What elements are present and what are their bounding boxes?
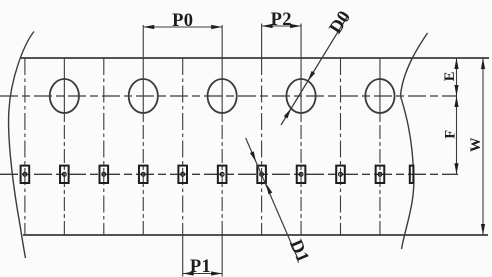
dimension P2 arrow right <box>290 24 301 28</box>
dimension W arrow bottom <box>481 224 485 235</box>
dimension D0 arrow upper <box>308 71 315 81</box>
dimension P0 extension line left <box>142 25 144 58</box>
dimension P0 line <box>143 26 222 28</box>
svg-text:W: W <box>468 137 484 152</box>
dimension P0 arrow right <box>211 25 222 29</box>
dimension W arrow top <box>481 58 485 69</box>
pocket 5 <box>178 166 187 183</box>
pocket 6 <box>218 166 227 183</box>
vertical center line x3 (hole 2 / pocket 4) <box>142 58 144 122</box>
pocket 1 <box>21 166 30 183</box>
sprocket hole 3 <box>208 79 237 113</box>
dimension W line <box>482 58 484 235</box>
dimension P1 extension line right <box>221 235 223 277</box>
svg-text:F: F <box>443 130 459 139</box>
dimension P2 line <box>262 25 301 27</box>
dimension D0 leader line <box>281 17 347 125</box>
pocket horizontal center line <box>0 173 458 175</box>
dimension P0 arrow left <box>143 25 154 29</box>
vertical center line x2 (pocket 3) <box>103 58 105 235</box>
dimension P2 arrow left <box>262 24 273 28</box>
dimension F arrow top <box>454 96 458 107</box>
svg-text:D0: D0 <box>326 7 355 37</box>
dimension D0 arrow lower <box>284 108 291 118</box>
sprocket-hole horizontal center line <box>0 95 457 97</box>
pocket 8 <box>297 166 306 183</box>
vertical center line x7 (hole 4 / pocket 8) <box>300 58 302 122</box>
svg-text:P0: P0 <box>172 11 193 31</box>
dimension F arrow bottom <box>454 163 458 174</box>
pocket 4 <box>139 166 148 183</box>
dimension P1 extension line left <box>182 235 184 277</box>
svg-text:P1: P1 <box>190 257 211 277</box>
dimension P1 arrow left <box>183 271 194 275</box>
tape bottom edge <box>23 234 488 236</box>
vertical center line x4 (pocket 5) <box>182 58 184 235</box>
sprocket hole 4 <box>286 79 315 113</box>
dimension P2 extension line left <box>261 24 263 59</box>
pocket 3 <box>100 166 109 183</box>
vertical center line x1 (hole 1 / pocket 2) <box>63 58 65 122</box>
dimension P0 extension line right <box>221 25 223 58</box>
dimension P1 line <box>183 273 222 275</box>
dimension E arrow bottom <box>454 85 458 96</box>
vertical center line x9 (hole 5 / pocket 10) <box>379 58 381 122</box>
pocket 2 <box>60 166 69 183</box>
right break line <box>401 33 428 249</box>
vertical center line x0 (pocket 1) <box>24 58 26 235</box>
vertical center line x6 (pocket 7) <box>261 58 263 235</box>
svg-text:E: E <box>442 72 458 82</box>
sprocket hole 1 <box>50 79 79 113</box>
pocket 11 (clipped by break) <box>410 166 414 183</box>
pocket 7 <box>257 166 266 183</box>
vertical center line x8 (pocket 9) <box>340 58 342 235</box>
dimension P1 arrow right <box>211 271 222 275</box>
dimension D1 leader line <box>246 138 298 259</box>
vertical center line x5 (hole 3 / pocket 6) <box>221 58 223 122</box>
pocket 10 <box>376 166 385 183</box>
tape top edge <box>21 57 489 59</box>
dimension P2 extension line right <box>300 24 302 59</box>
left break line <box>9 32 34 259</box>
dimension D1 arrow lower <box>266 184 272 194</box>
sprocket hole 2 <box>129 79 158 113</box>
dimension E arrow top <box>454 58 458 69</box>
dimension D1 arrow upper <box>250 151 256 161</box>
dimension E/F line <box>456 58 458 174</box>
sprocket hole 5 <box>365 79 394 113</box>
svg-text:D1: D1 <box>285 237 312 266</box>
pocket 9 <box>336 166 345 183</box>
svg-text:P2: P2 <box>271 10 292 30</box>
